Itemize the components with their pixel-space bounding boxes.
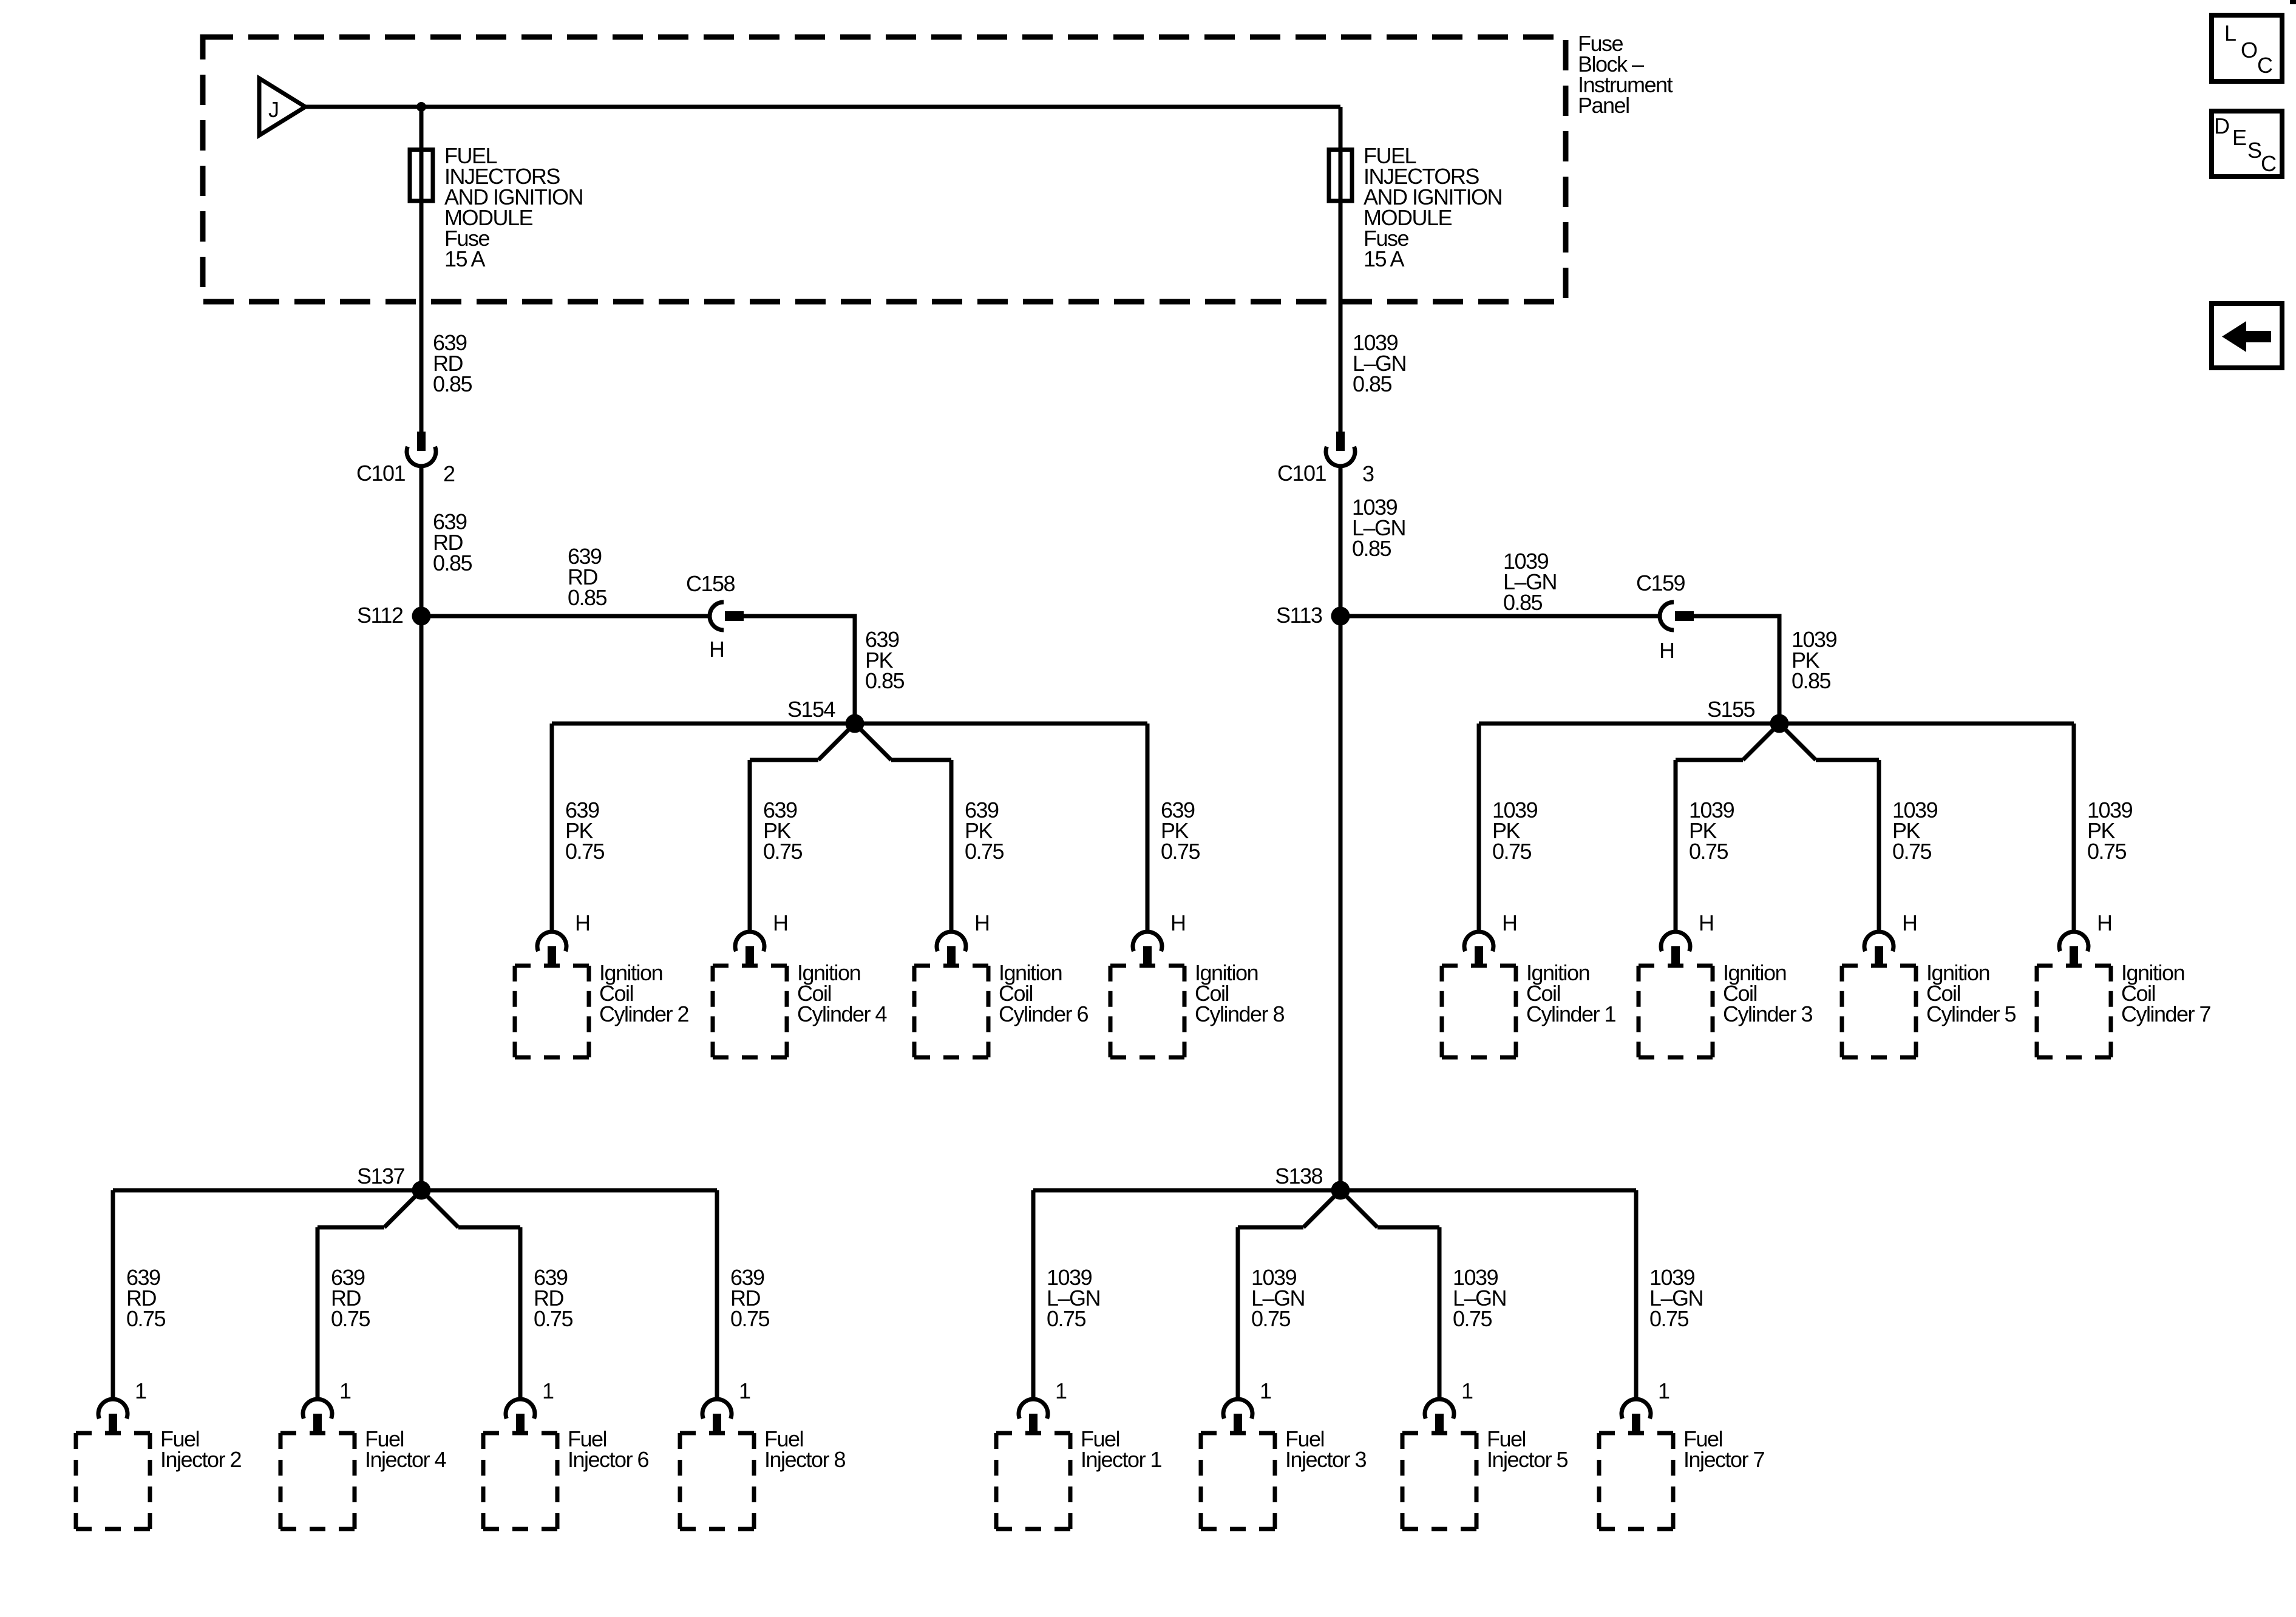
label: wire 639 RD 0.85 (S112 to C158)	[568, 544, 607, 610]
svg-text:1: 1	[542, 1378, 554, 1403]
svg-text:15 A: 15 A	[444, 246, 486, 271]
svg-text:0.85: 0.85	[1352, 536, 1391, 561]
label: wire 1039 PK 0.75 (to coil 3)	[1689, 798, 1734, 864]
label: wire 1039 PK 0.75 (to coil 7)	[2087, 798, 2133, 864]
svg-text:1: 1	[339, 1378, 351, 1403]
svg-text:L: L	[2224, 21, 2236, 46]
fuel injector 1 (dashed box)	[996, 1433, 1070, 1529]
label: wire 1039 L-GN 0.75 (to injector 5)	[1453, 1265, 1506, 1331]
svg-text:S113: S113	[1276, 603, 1322, 628]
svg-text:O: O	[2241, 38, 2257, 63]
svg-text:0.75: 0.75	[1649, 1306, 1689, 1331]
svg-text:C: C	[2261, 151, 2276, 176]
splice S138 fan-out	[1033, 1164, 1636, 1399]
svg-text:Injector 7: Injector 7	[1683, 1447, 1765, 1472]
label: wire 1039 PK 0.75 (to coil 1)	[1492, 798, 1538, 864]
svg-text:S154: S154	[787, 697, 835, 722]
svg-text:1: 1	[1260, 1378, 1271, 1403]
label: Fuel Injector 7	[1683, 1426, 1765, 1472]
label: wire 1039 PK 0.75 (to coil 5)	[1892, 798, 1938, 864]
svg-text:1: 1	[1461, 1378, 1473, 1403]
svg-text:0.75: 0.75	[965, 839, 1004, 864]
svg-text:0.75: 0.75	[331, 1306, 370, 1331]
svg-text:0.75: 0.75	[1492, 839, 1532, 864]
svg-text:0.85: 0.85	[1503, 590, 1543, 615]
connector C101 pin 2	[356, 432, 455, 486]
fuel injector 4 (dashed box)	[280, 1433, 355, 1529]
svg-text:Injector 1: Injector 1	[1081, 1447, 1162, 1472]
label: Fuel Injector 4	[365, 1426, 446, 1472]
svg-text:0.85: 0.85	[1353, 371, 1392, 396]
wire: S113 to C159	[1340, 614, 1659, 619]
fuse block - instrument panel (dashed box)	[203, 37, 1566, 302]
svg-text:H: H	[773, 910, 788, 935]
connector pin 1 at fuel injector 5	[1425, 1378, 1473, 1435]
svg-text:H: H	[974, 910, 990, 935]
label: wire 1039 L-GN 0.85 (below fuse 2)	[1353, 330, 1406, 396]
fuel injector 7 (dashed box)	[1599, 1433, 1673, 1529]
svg-text:S138: S138	[1275, 1164, 1323, 1188]
svg-text:H: H	[1170, 910, 1186, 935]
label: wire 639 PK 0.85 (C158 to S154)	[865, 627, 905, 693]
connector pin 1 at fuel injector 1	[1019, 1378, 1067, 1435]
fuel injector 6 (dashed box)	[483, 1433, 557, 1529]
svg-text:D: D	[2214, 114, 2229, 138]
svg-text:Cylinder 8: Cylinder 8	[1195, 1002, 1285, 1026]
svg-text:Injector 3: Injector 3	[1285, 1447, 1367, 1472]
svg-text:1: 1	[739, 1378, 750, 1403]
connector pin 1 at fuel injector 8	[702, 1378, 750, 1435]
ignition coil cylinder 6 (dashed box)	[914, 966, 988, 1057]
ignition coil cylinder 8 (dashed box)	[1110, 966, 1184, 1057]
svg-text:H: H	[1502, 910, 1517, 935]
svg-text:Cylinder 7: Cylinder 7	[2121, 1002, 2211, 1026]
wire: left fuse branch down	[419, 107, 424, 432]
connector C159 H	[1636, 571, 1694, 663]
svg-text:15 A: 15 A	[1364, 246, 1405, 271]
svg-text:0.85: 0.85	[433, 551, 472, 575]
label: wire 1039 L-GN 0.75 (to injector 7)	[1649, 1265, 1703, 1331]
wire: main feed from J	[305, 105, 1340, 109]
label: wire 639 RD 0.85 (below C101 pin 2)	[433, 509, 472, 575]
fuel injector 8 (dashed box)	[680, 1433, 754, 1529]
svg-text:0.85: 0.85	[568, 585, 607, 610]
ignition coil cylinder 2 (dashed box)	[515, 966, 589, 1057]
svg-text:0.75: 0.75	[2087, 839, 2127, 864]
connector H at ignition coil cylinder 7	[2059, 910, 2111, 968]
svg-text:C101: C101	[356, 461, 406, 486]
svg-text:H: H	[709, 637, 724, 662]
connector C101 pin 3	[1277, 432, 1374, 486]
label: wire 639 RD 0.75 (to injector 2)	[126, 1265, 166, 1331]
wire: 1039 L-GN from C101-3 to S113	[1339, 466, 1343, 1190]
splice S113	[1276, 603, 1350, 628]
ignition coil cylinder 1 (dashed box)	[1442, 966, 1516, 1057]
label: Ignition Coil Cylinder 3	[1723, 960, 1813, 1026]
svg-text:Cylinder 5: Cylinder 5	[1926, 1002, 2016, 1026]
connector pin 1 at fuel injector 3	[1223, 1378, 1271, 1435]
label: wire 639 RD 0.75 (to injector 8)	[730, 1265, 770, 1331]
svg-text:Cylinder 6: Cylinder 6	[999, 1002, 1089, 1026]
label: wire 639 PK 0.75 (to coil 2)	[565, 798, 605, 864]
connector H at ignition coil cylinder 4	[735, 910, 788, 968]
connector pin 1 at fuel injector 7	[1622, 1378, 1669, 1435]
svg-text:Cylinder 4: Cylinder 4	[797, 1002, 887, 1026]
label: fuse 1 name	[444, 143, 583, 271]
label: Ignition Coil Cylinder 2	[599, 960, 689, 1026]
label: wire 1039 L-GN 0.75 (to injector 3)	[1251, 1265, 1305, 1331]
fuel injector 2 (dashed box)	[76, 1433, 150, 1529]
svg-text:S137: S137	[357, 1164, 405, 1188]
label: Fuel Injector 3	[1285, 1426, 1367, 1472]
label: fuse 2 name	[1364, 143, 1502, 271]
svg-text:0.75: 0.75	[1453, 1306, 1492, 1331]
ignition coil cylinder 4 (dashed box)	[713, 966, 787, 1057]
label: Ignition Coil Cylinder 1	[1526, 960, 1616, 1026]
svg-text:Injector 5: Injector 5	[1487, 1447, 1568, 1472]
fuel injector 5 (dashed box)	[1402, 1433, 1476, 1529]
label: wire 1039 L-GN 0.85 (below C101 pin 3)	[1352, 495, 1405, 561]
svg-text:H: H	[575, 910, 590, 935]
junction dot on main feed	[416, 102, 426, 112]
label: wire 639 PK 0.75 (to coil 8)	[1161, 798, 1200, 864]
svg-text:2: 2	[443, 461, 455, 486]
svg-text:S112: S112	[357, 603, 403, 628]
label: Fuse Block - Instrument Panel	[1578, 31, 1673, 118]
connector H at ignition coil cylinder 8	[1133, 910, 1186, 968]
svg-text:Injector 8: Injector 8	[764, 1447, 846, 1472]
label: Fuel Injector 1	[1081, 1426, 1162, 1472]
wire: C158 to S154	[744, 616, 855, 724]
svg-text:S155: S155	[1707, 697, 1755, 722]
svg-text:0.75: 0.75	[565, 839, 605, 864]
ignition coil cylinder 3 (dashed box)	[1639, 966, 1713, 1057]
svg-text:0.85: 0.85	[433, 371, 472, 396]
svg-text:0.75: 0.75	[730, 1306, 770, 1331]
svg-text:1: 1	[135, 1378, 146, 1403]
svg-text:0.75: 0.75	[1892, 839, 1932, 864]
svg-text:Cylinder 2: Cylinder 2	[599, 1002, 689, 1026]
svg-text:1: 1	[1055, 1378, 1067, 1403]
fuse F2 (FUEL INJECTORS AND IGNITION MODULE Fuse 15 A)	[1329, 150, 1352, 202]
svg-text:0.75: 0.75	[1161, 839, 1200, 864]
label: Fuel Injector 6	[568, 1426, 649, 1472]
svg-text:E: E	[2232, 125, 2246, 150]
ignition coil cylinder 5 (dashed box)	[1842, 966, 1916, 1057]
back arrow box	[2212, 303, 2282, 368]
connector C158 H	[686, 571, 744, 662]
svg-text:1: 1	[1658, 1378, 1669, 1403]
svg-text:Cylinder 1: Cylinder 1	[1526, 1002, 1616, 1026]
svg-text:0.75: 0.75	[534, 1306, 573, 1331]
svg-text:C158: C158	[686, 571, 735, 596]
splice S137 fan-out	[113, 1164, 717, 1399]
label: Ignition Coil Cylinder 7	[2121, 960, 2211, 1026]
svg-text:0.75: 0.75	[763, 839, 803, 864]
svg-text:C: C	[2257, 53, 2272, 78]
svg-text:H: H	[1699, 910, 1714, 935]
label: Fuel Injector 2	[160, 1426, 242, 1472]
connector pin 1 at fuel injector 6	[506, 1378, 554, 1435]
label: Ignition Coil Cylinder 4	[797, 960, 887, 1026]
svg-text:0.75: 0.75	[1689, 839, 1728, 864]
label: wire 639 PK 0.75 (to coil 6)	[965, 798, 1004, 864]
svg-text:0.85: 0.85	[1792, 668, 1831, 693]
connector pin 1 at fuel injector 2	[98, 1378, 146, 1435]
wire: S112 to C158	[421, 614, 710, 619]
splice S154 fan-out	[552, 697, 1147, 932]
label: Fuel Injector 5	[1487, 1426, 1568, 1472]
connector H at ignition coil cylinder 6	[937, 910, 989, 968]
label: wire 1039 PK 0.85 (C159 to S155)	[1792, 627, 1837, 693]
connector H at ignition coil cylinder 2	[537, 910, 590, 968]
wire: right fuse branch down	[1339, 107, 1343, 432]
svg-text:Injector 6: Injector 6	[568, 1447, 649, 1472]
svg-text:0.75: 0.75	[126, 1306, 166, 1331]
svg-text:C159: C159	[1636, 571, 1685, 595]
svg-text:0.75: 0.75	[1251, 1306, 1291, 1331]
fuse F1 (FUEL INJECTORS AND IGNITION MODULE Fuse 15 A)	[410, 150, 433, 202]
svg-text:H: H	[1659, 638, 1674, 663]
svg-text:Cylinder 3: Cylinder 3	[1723, 1002, 1813, 1026]
svg-text:Panel: Panel	[1578, 93, 1629, 118]
svg-text:0.85: 0.85	[865, 668, 905, 693]
label: wire 1039 L-GN 0.85 (S113 to C159)	[1503, 549, 1557, 615]
connector H at ignition coil cylinder 3	[1661, 910, 1714, 968]
svg-text:C101: C101	[1277, 461, 1326, 486]
svg-text:0.75: 0.75	[1047, 1306, 1086, 1331]
connector pin 1 at fuel injector 4	[303, 1378, 351, 1435]
label: wire 1039 L-GN 0.75 (to injector 1)	[1047, 1265, 1100, 1331]
label: wire 639 RD 0.85 (below fuse 1)	[433, 330, 472, 396]
svg-text:J: J	[268, 97, 279, 122]
svg-text:Injector 2: Injector 2	[160, 1447, 242, 1472]
svg-text:3: 3	[1362, 461, 1374, 486]
label: Fuel Injector 8	[764, 1426, 846, 1472]
label: Ignition Coil Cylinder 6	[999, 960, 1089, 1026]
label: wire 639 PK 0.75 (to coil 4)	[763, 798, 803, 864]
label: Ignition Coil Cylinder 5	[1926, 960, 2016, 1026]
connector J (triangle)	[259, 78, 305, 135]
ignition coil cylinder 7 (dashed box)	[2037, 966, 2111, 1057]
page corner mark	[2290, 0, 2296, 4]
svg-text:H: H	[2097, 910, 2112, 935]
svg-text:S: S	[2247, 138, 2261, 163]
DESC box	[2212, 111, 2282, 177]
svg-text:Injector 4: Injector 4	[365, 1447, 446, 1472]
wire: C159 to S155	[1694, 616, 1779, 724]
svg-text:H: H	[1902, 910, 1917, 935]
splice S155 fan-out	[1479, 697, 2074, 932]
label: wire 639 RD 0.75 (to injector 4)	[331, 1265, 370, 1331]
LOC box	[2212, 15, 2282, 81]
fuel injector 3 (dashed box)	[1201, 1433, 1275, 1529]
wire: 639 RD from C101-2 to S112	[419, 466, 424, 1190]
connector H at ignition coil cylinder 1	[1464, 910, 1517, 968]
label: wire 639 RD 0.75 (to injector 6)	[534, 1265, 573, 1331]
connector H at ignition coil cylinder 5	[1864, 910, 1917, 968]
label: Ignition Coil Cylinder 8	[1195, 960, 1285, 1026]
splice S112	[357, 603, 431, 628]
